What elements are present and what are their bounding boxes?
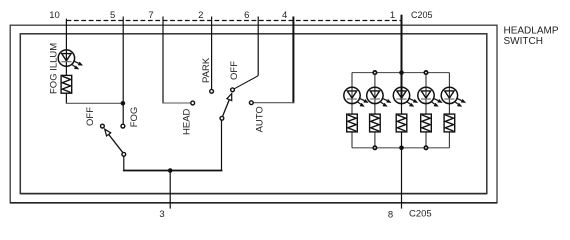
switch 2 OFF contact <box>231 88 235 92</box>
wire pin 5 to FOG contact <box>122 17 124 125</box>
LED array top bus wire <box>352 72 449 74</box>
junction dot bottom bus branch 2 <box>373 146 376 149</box>
resistor array 1 <box>347 114 358 132</box>
wire corner to junction on pin 5 net <box>66 102 123 104</box>
LED array lamp 5 <box>441 87 465 106</box>
svg-text:C205: C205 <box>409 209 432 220</box>
outer box bottom edge <box>10 202 497 204</box>
svg-text:10: 10 <box>49 10 60 21</box>
svg-text:4: 4 <box>282 10 287 21</box>
wire pin 2 to PARK contact <box>211 17 213 90</box>
switch 2 arm arrowhead <box>227 94 232 101</box>
inner case box <box>20 34 487 194</box>
array branch 2 wire <box>374 73 376 148</box>
svg-text:FOG ILLUM: FOG ILLUM <box>49 43 60 94</box>
junction dot top bus branch 2 <box>373 71 376 74</box>
outer case box <box>10 25 497 203</box>
LED array lamp 2 <box>367 87 391 106</box>
svg-text:6: 6 <box>244 10 249 21</box>
wire pin 10 to fog LED and resistor <box>65 19 67 76</box>
switch 2 AUTO contact <box>249 101 253 105</box>
connector C205 dashed line <box>67 20 402 22</box>
svg-text:1: 1 <box>390 10 395 21</box>
LED array bottom bus wire <box>352 147 449 149</box>
svg-text:HEADLAMP: HEADLAMP <box>504 25 559 36</box>
svg-text:SWITCH: SWITCH <box>504 36 543 47</box>
switch 1 arm wire <box>109 134 123 152</box>
svg-text:OFF: OFF <box>85 107 96 126</box>
junction dot bottom bus branch 3 <box>399 146 404 151</box>
junction dot top bus branch 3 <box>399 70 404 75</box>
switch 1 pivot <box>122 152 126 156</box>
wire bus riser to pivot 2 <box>221 120 223 170</box>
wire junction to pin 3 <box>169 171 171 209</box>
junction dot pin5/fog resistor <box>121 101 126 106</box>
junction dot bottom bus branch 4 <box>424 146 427 149</box>
wire pin 6 vertical <box>257 17 259 76</box>
switch 2 pivot <box>220 116 224 120</box>
svg-text:AUTO: AUTO <box>255 106 266 132</box>
wire pivot 1 to common bus <box>123 156 125 170</box>
wire pin 7 vertical <box>162 17 164 104</box>
LED fog illumination <box>58 50 82 69</box>
switch 2 HEAD contact <box>191 101 195 105</box>
resistor fog illumination <box>61 75 72 93</box>
array branch 4 wire <box>425 73 427 148</box>
switch 2 arm wire <box>223 100 230 117</box>
inner box bottom edge <box>20 193 487 195</box>
svg-text:HEAD: HEAD <box>182 108 193 135</box>
resistor array 2 <box>370 114 381 132</box>
LED array lamp 1 <box>344 87 368 106</box>
array branch 1 wire <box>351 73 353 148</box>
switch 1 arm arrowhead <box>105 129 111 136</box>
resistor array 4 <box>421 114 432 132</box>
svg-text:5: 5 <box>110 10 115 21</box>
junction dot pin 3 <box>168 168 173 173</box>
wire AUTO contact to pin 4 <box>253 102 294 104</box>
wire resistor to corner <box>65 93 67 103</box>
svg-text:PARK: PARK <box>201 57 212 83</box>
switch 1 FOG contact <box>121 124 125 128</box>
svg-text:OFF: OFF <box>229 61 240 80</box>
svg-text:FOG: FOG <box>129 107 140 128</box>
wire pin 1 through array to pin 8 <box>401 100 403 209</box>
junction dot top bus branch 4 <box>424 71 427 74</box>
resistor array 3 <box>396 114 407 132</box>
LED array lamp 3 <box>393 87 417 106</box>
svg-text:8: 8 <box>388 209 393 220</box>
wire pin 4 vertical <box>292 17 294 104</box>
wire pin 7 to HEAD contact <box>162 102 190 104</box>
LED array lamp 4 <box>418 87 442 106</box>
svg-text:3: 3 <box>159 209 164 220</box>
wire pin 6 diagonal to OFF contact <box>234 76 258 89</box>
switch 1 OFF contact <box>101 124 105 128</box>
svg-text:C205: C205 <box>411 10 433 20</box>
array branch 5 wire <box>448 73 450 148</box>
switch 2 PARK contact <box>210 89 214 93</box>
wire pin 1 feed <box>401 15 403 100</box>
svg-text:7: 7 <box>148 10 153 21</box>
common bus wire <box>124 169 222 172</box>
resistor array 5 <box>444 114 455 132</box>
svg-text:2: 2 <box>198 10 203 21</box>
